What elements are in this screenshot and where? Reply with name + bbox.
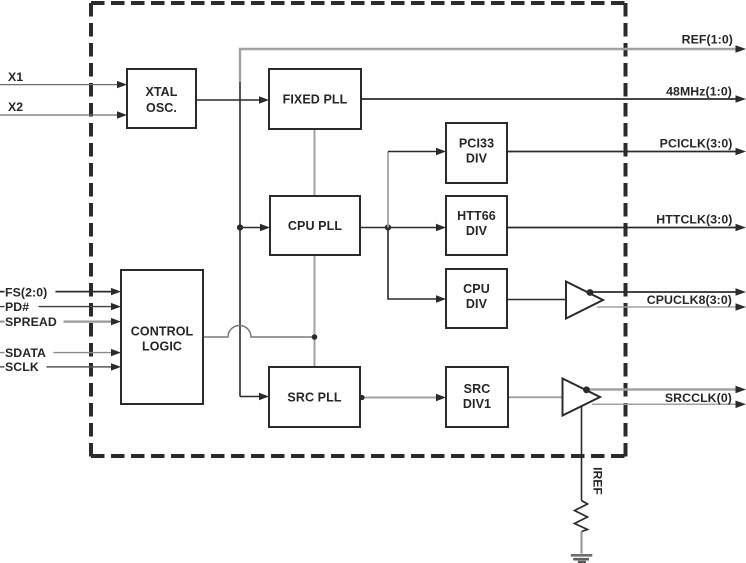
wire SCLK input — [0, 360, 121, 374]
svg-text:IREF: IREF — [591, 467, 605, 495]
wire PCICLK output — [507, 148, 746, 156]
block HTT66 DIV — [446, 196, 507, 255]
block XTAL OSC — [127, 69, 196, 128]
svg-text:PD#: PD# — [5, 300, 29, 314]
svg-text:CPUCLK8(3:0): CPUCLK8(3:0) — [647, 293, 732, 307]
wire SDATA input — [0, 346, 121, 360]
resistor R1 — [575, 501, 588, 532]
block CPU DIV — [446, 269, 507, 328]
svg-text:X2: X2 — [8, 100, 23, 114]
wire REF feedback (gray) from node A up to REF output — [240, 45, 746, 100]
svg-text:XTAL: XTAL — [145, 85, 177, 99]
wire X1 — [0, 70, 127, 88]
wire SRC DIV1 output to buffer — [508, 396, 563, 398]
buffer U1 CPU output buffer — [566, 282, 603, 319]
wire control logic output with hop to feedback line — [203, 326, 317, 340]
wire SRCCLK lower output — [592, 401, 746, 409]
wire PLL feedback vertical (gray) FIXED PLL to CPU PLL to SRC PLL — [314, 129, 316, 367]
svg-text:SRCCLK(0): SRCCLK(0) — [665, 391, 732, 405]
wire SRC PLL input — [240, 393, 269, 400]
svg-text:48MHz(1:0): 48MHz(1:0) — [666, 85, 732, 99]
svg-text:OSC.: OSC. — [146, 101, 177, 115]
svg-text:SRC PLL: SRC PLL — [287, 391, 341, 405]
wire X2 — [0, 100, 127, 119]
block SRC DIV1 — [446, 367, 508, 427]
wire FS(2:0) input — [0, 285, 121, 300]
wire branch up to PCI33 DIV (gray segment) — [388, 148, 446, 228]
svg-text:PCICLK(3:0): PCICLK(3:0) — [660, 137, 733, 151]
wire CPUCLK lower output — [597, 303, 746, 311]
block PCI33 DIV — [446, 123, 507, 183]
wire CPU PLL input — [237, 224, 270, 231]
ground — [571, 555, 593, 562]
svg-text:CONTROL: CONTROL — [131, 325, 194, 339]
wire resistor to ground — [580, 532, 582, 554]
wire IREF from SRC buffer down — [581, 406, 583, 501]
wire SRCCLK upper output — [583, 386, 746, 394]
wire CPU DIV output to buffer — [507, 299, 566, 301]
wire HTTCLK output — [507, 224, 746, 232]
svg-text:DIV: DIV — [466, 297, 488, 311]
wire XTAL OSC output to FIXED PLL — [196, 96, 269, 103]
wire SPREAD input — [0, 315, 121, 329]
block CPU PLL — [270, 196, 360, 255]
block SRC PLL — [269, 367, 360, 427]
svg-text:SDATA: SDATA — [5, 346, 46, 360]
svg-text:HTT66: HTT66 — [457, 209, 496, 223]
wire 48MHz output from FIXED PLL — [361, 95, 746, 103]
svg-text:PCI33: PCI33 — [459, 137, 494, 151]
chip boundary dashed box — [91, 3, 626, 457]
block CONTROL LOGIC — [121, 270, 203, 404]
block FIXED PLL — [269, 69, 361, 129]
buffer U2 SRC output buffer — [563, 379, 601, 416]
svg-text:X1: X1 — [8, 70, 23, 84]
svg-text:DIV: DIV — [466, 224, 488, 238]
svg-text:CPU PLL: CPU PLL — [288, 219, 342, 233]
wire SRC PLL output to SRC DIV1 — [359, 394, 446, 401]
svg-text:HTTCLK(3:0): HTTCLK(3:0) — [656, 213, 732, 227]
svg-text:CPU: CPU — [463, 282, 490, 296]
svg-text:SPREAD: SPREAD — [5, 315, 57, 329]
wire PD# input — [0, 300, 121, 314]
wire branch down to CPU DIV — [388, 228, 446, 303]
svg-text:DIV: DIV — [466, 152, 488, 166]
wire main vertical bus from node A down — [239, 100, 241, 397]
svg-text:DIV1: DIV1 — [463, 397, 491, 411]
svg-text:FS(2:0): FS(2:0) — [5, 286, 47, 300]
svg-text:SRC: SRC — [464, 382, 491, 396]
svg-text:SCLK: SCLK — [5, 360, 39, 374]
wire CPU PLL output to branch node — [360, 224, 446, 231]
svg-text:REF(1:0): REF(1:0) — [682, 33, 733, 47]
svg-text:LOGIC: LOGIC — [142, 340, 182, 354]
wire CPUCLK upper output — [590, 288, 746, 296]
svg-text:FIXED PLL: FIXED PLL — [283, 93, 348, 107]
